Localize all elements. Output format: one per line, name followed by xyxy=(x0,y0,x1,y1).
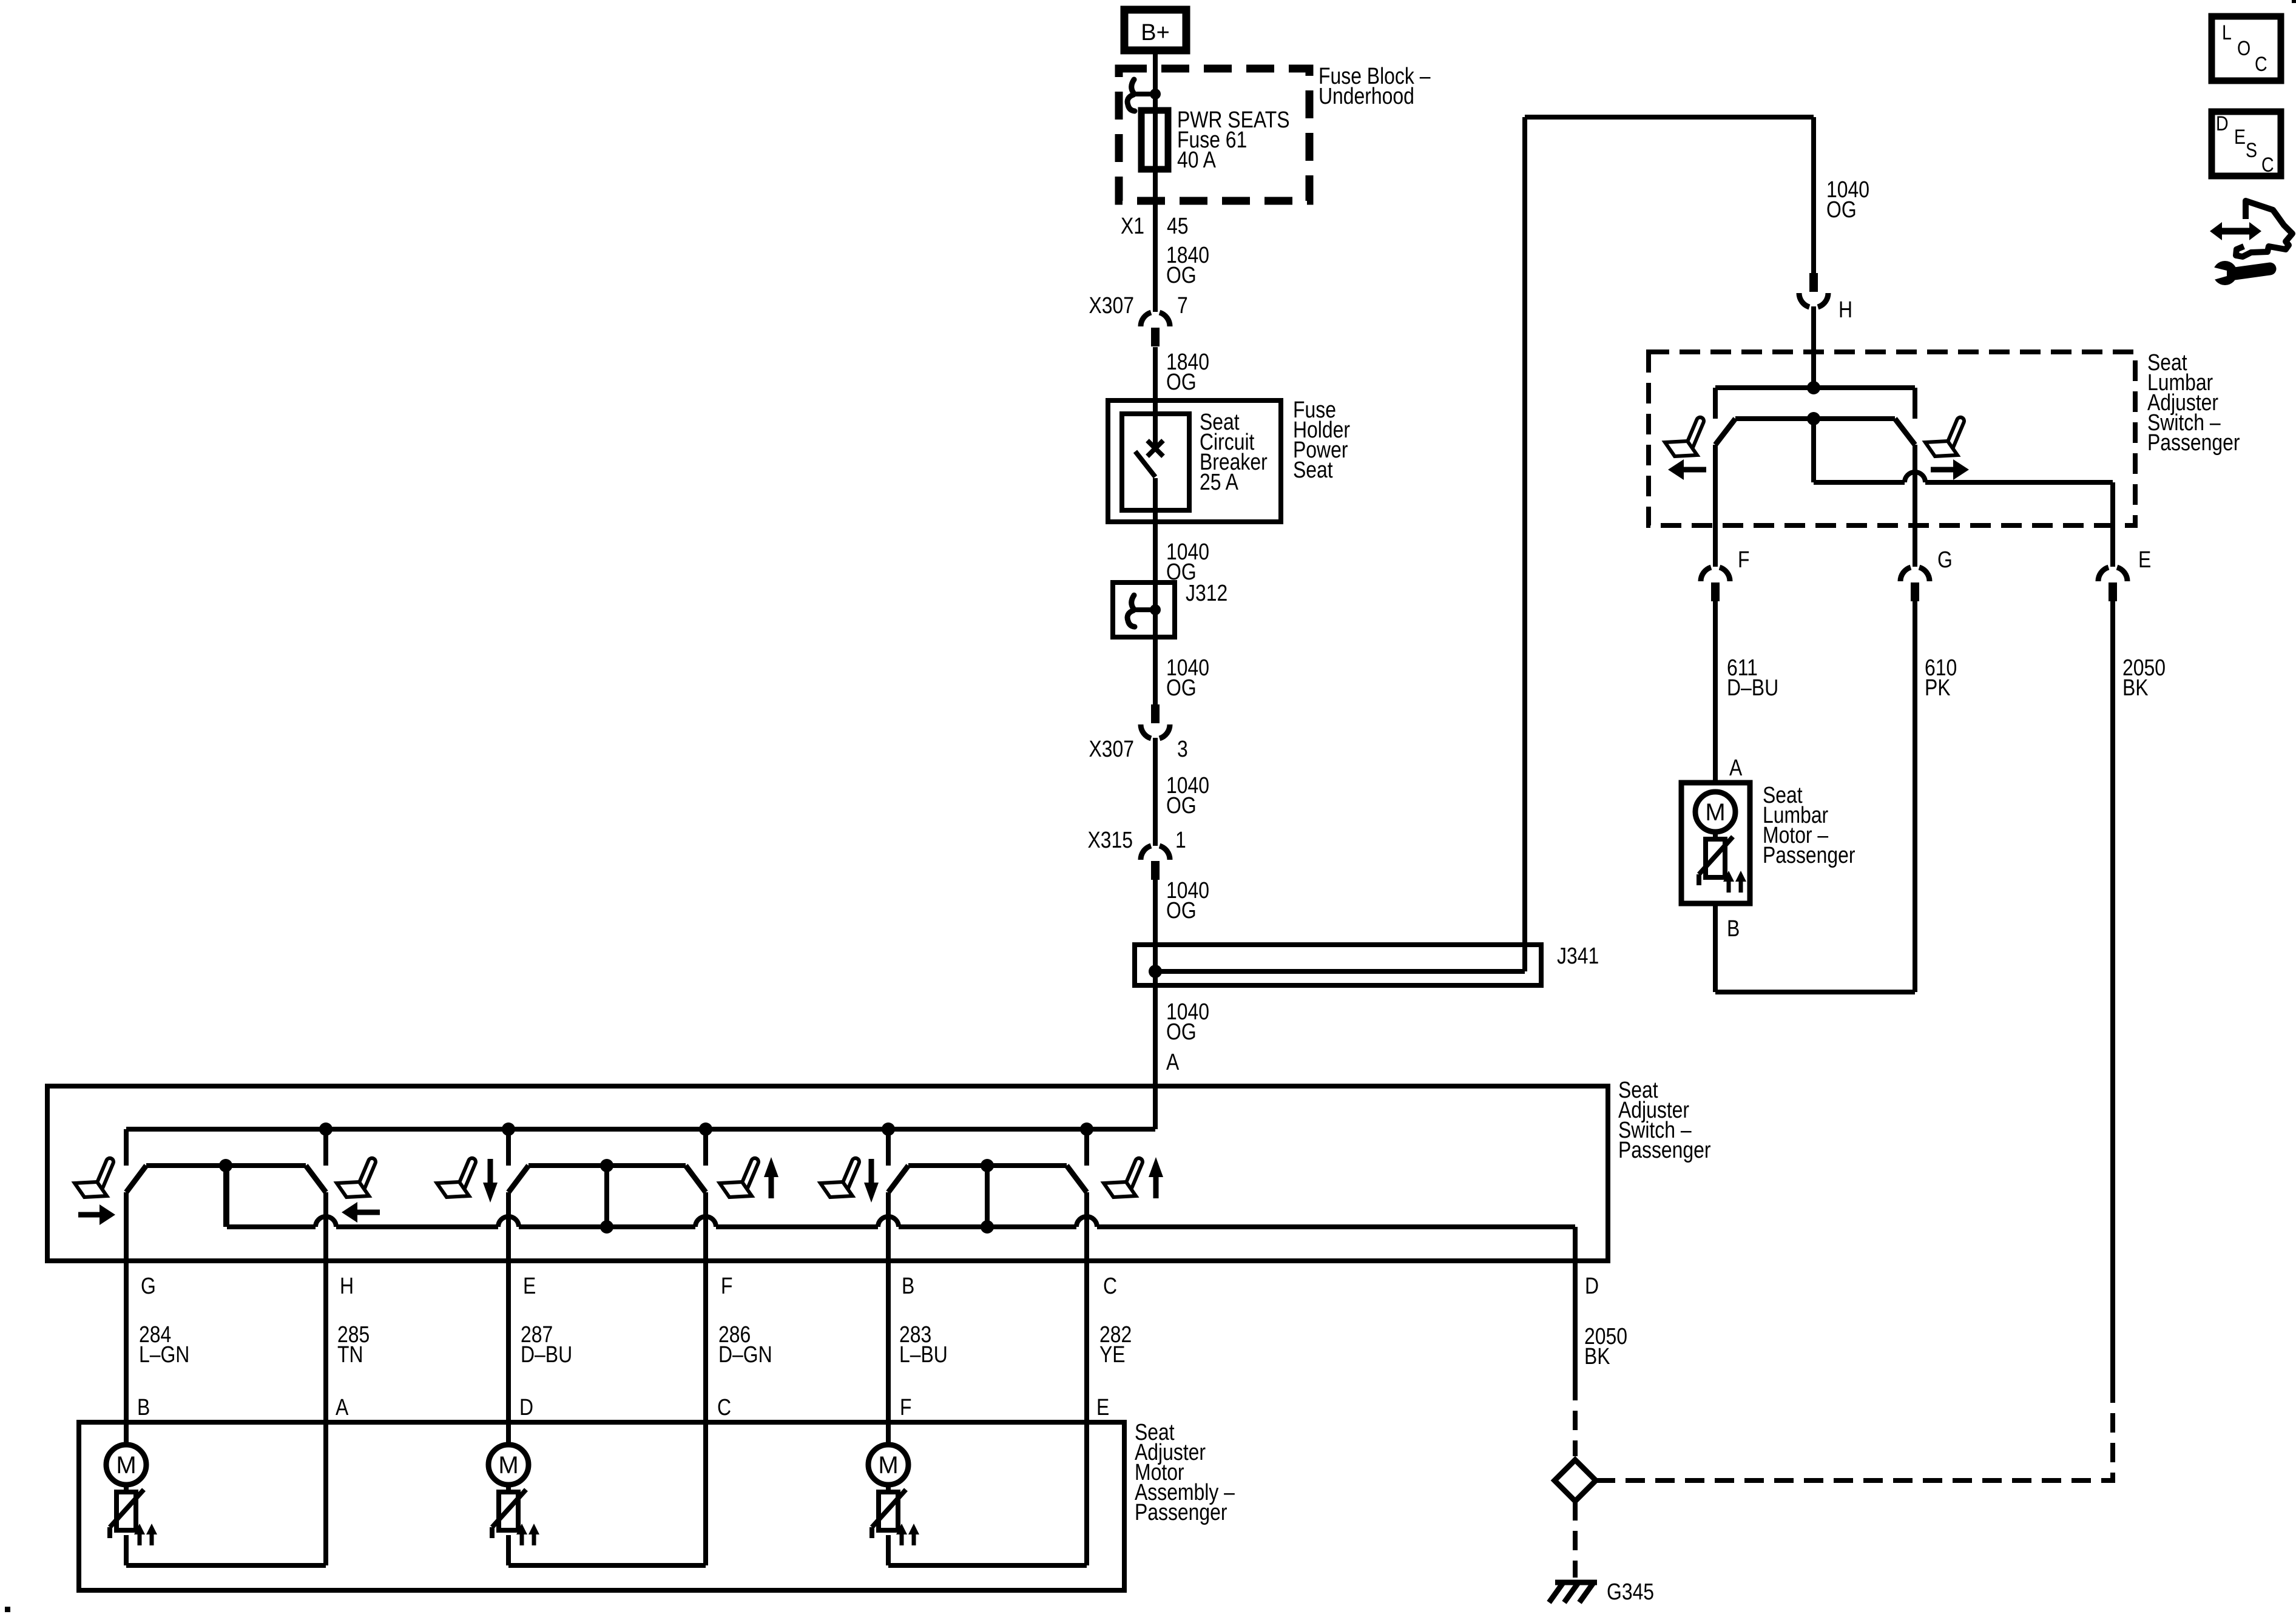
motor M2 return wire xyxy=(508,1563,706,1568)
svg-text:H: H xyxy=(340,1273,354,1298)
svg-text:1: 1 xyxy=(1175,827,1186,852)
connector E xyxy=(2098,567,2109,581)
svg-text:OG: OG xyxy=(1166,369,1197,394)
wire bus to fuse xyxy=(1153,94,1158,110)
svg-text:D–BU: D–BU xyxy=(1727,675,1778,700)
dashed wire splice to lumbar 2050 BK xyxy=(1596,1394,2113,1480)
svg-text:E: E xyxy=(2234,126,2246,149)
svg-text:Passenger: Passenger xyxy=(1618,1137,1711,1163)
wire 1040 OG xyxy=(1153,738,1158,846)
svg-text:E: E xyxy=(523,1273,536,1298)
svg-text:G: G xyxy=(1937,547,1953,572)
wire 1840 OG xyxy=(1153,347,1158,400)
lumbar motor return wire xyxy=(1713,903,1718,992)
seat icon - lumbar release xyxy=(1665,416,1705,456)
fuse holder power seat (outer box) xyxy=(1108,400,1281,522)
connector G xyxy=(1900,567,1911,581)
svg-text:OG: OG xyxy=(1166,792,1197,818)
seat icon - rear height up xyxy=(1104,1157,1144,1197)
wire fuse to X1 xyxy=(1153,169,1158,246)
svg-text:X1: X1 xyxy=(1121,213,1144,238)
fuse block bus tap xyxy=(1133,92,1155,96)
svg-text:OG: OG xyxy=(1166,897,1197,923)
svg-text:B: B xyxy=(137,1394,150,1420)
svg-text:D: D xyxy=(1585,1273,1599,1298)
svg-text:C: C xyxy=(1103,1273,1117,1298)
svg-text:A: A xyxy=(1166,1049,1180,1075)
wire 1040 OG xyxy=(1153,880,1158,945)
switch group 2 wiper tap xyxy=(604,1166,609,1227)
connector F xyxy=(1701,567,1711,581)
svg-text:O: O xyxy=(2237,37,2250,60)
svg-text:TN: TN xyxy=(337,1342,363,1367)
svg-text:J312: J312 xyxy=(1186,580,1227,606)
splice J341 xyxy=(1135,945,1541,985)
LOC reference box xyxy=(2212,16,2281,81)
svg-text:M: M xyxy=(498,1452,518,1479)
svg-text:C: C xyxy=(2261,154,2274,177)
svg-text:E: E xyxy=(2138,547,2151,572)
switch group 3 fixed contact stubs xyxy=(882,1122,895,1136)
seat icon - rear height down xyxy=(820,1157,860,1197)
switch common return wire to pin D xyxy=(225,1166,229,1227)
svg-text:Underhood: Underhood xyxy=(1319,83,1414,109)
svg-text:D: D xyxy=(519,1394,533,1420)
page corner mark xyxy=(2292,0,2296,3)
svg-text:40 A: 40 A xyxy=(1177,147,1216,172)
svg-text:B+: B+ xyxy=(1141,20,1170,46)
svg-text:A: A xyxy=(1729,755,1743,780)
splice J312 xyxy=(1113,582,1175,637)
lumbar switch wiper tap to pin E xyxy=(1811,419,1816,482)
svg-text:F: F xyxy=(721,1273,732,1298)
seat icon - seat rearward xyxy=(337,1157,377,1197)
svg-text:Seat: Seat xyxy=(1293,457,1333,482)
seat adjuster motor M1 xyxy=(124,1422,129,1445)
seat icon - seat forward xyxy=(75,1157,115,1197)
seat adjuster switch - passenger (box) xyxy=(47,1086,1608,1261)
wire 610 PK xyxy=(1913,601,1917,992)
switch group 3 wiper tap xyxy=(985,1166,990,1227)
svg-text:BK: BK xyxy=(1584,1343,1610,1369)
service icon connector outline xyxy=(2236,201,2292,257)
svg-text:PK: PK xyxy=(1925,675,1951,700)
svg-text:OG: OG xyxy=(1166,675,1197,700)
svg-text:3: 3 xyxy=(1177,736,1188,761)
svg-text:B: B xyxy=(902,1273,914,1298)
svg-text:A: A xyxy=(336,1394,349,1420)
wire 611 D-BU xyxy=(1713,601,1718,783)
lumbar switch movable contact bar xyxy=(1735,416,1895,421)
motor M1 return wire xyxy=(126,1563,326,1568)
svg-text:E: E xyxy=(1096,1394,1109,1420)
svg-text:M: M xyxy=(878,1452,898,1479)
motor M3 return wire xyxy=(888,1563,1087,1568)
svg-text:OG: OG xyxy=(1166,1019,1197,1044)
svg-text:L–GN: L–GN xyxy=(139,1342,189,1367)
switch group 2 output wires xyxy=(506,1192,511,1422)
DESC reference box xyxy=(2212,112,2281,176)
dashed wire splice to ground xyxy=(1573,1501,1578,1578)
lumbar switch output wires F G xyxy=(1713,445,1718,567)
svg-text:45: 45 xyxy=(1167,213,1189,238)
wire J341 to lumbar switch feed 1040 OG xyxy=(1522,117,1527,971)
service icon double arrow xyxy=(2220,228,2252,235)
battery positive terminal B+ xyxy=(1124,10,1186,50)
connector H - lumbar switch feed xyxy=(1809,273,1818,292)
seat icon - front height down xyxy=(437,1157,477,1197)
wire B+ to fuse block xyxy=(1153,54,1158,94)
svg-text:OG: OG xyxy=(1826,197,1857,222)
svg-text:D: D xyxy=(2216,112,2229,135)
switch group 2 fixed contact stubs xyxy=(502,1122,515,1136)
splice (diamond) xyxy=(1555,1460,1596,1501)
ground G345 xyxy=(1555,1580,1597,1585)
switch group 1 wiper tap xyxy=(223,1166,228,1227)
switch group 2 movable contact bar xyxy=(528,1163,686,1168)
seat adjuster motor assembly - passenger (box) xyxy=(79,1422,1124,1590)
svg-text:J341: J341 xyxy=(1557,943,1599,968)
svg-text:X315: X315 xyxy=(1087,827,1133,852)
svg-text:G: G xyxy=(141,1273,156,1298)
svg-text:7: 7 xyxy=(1177,292,1188,318)
svg-text:L: L xyxy=(2222,21,2232,44)
switch group 1 output wires xyxy=(124,1192,129,1422)
svg-text:YE: YE xyxy=(1099,1342,1126,1367)
seat adjuster motor M3 xyxy=(886,1422,891,1445)
seat adjuster motor M2 xyxy=(506,1422,511,1445)
seat lumbar adjuster switch - passenger (dashed box) xyxy=(1649,352,2135,525)
svg-text:B: B xyxy=(1727,916,1740,941)
svg-text:C: C xyxy=(2255,53,2267,76)
switch group 1 fixed contact stubs xyxy=(319,1122,333,1136)
svg-text:BK: BK xyxy=(2122,675,2149,700)
svg-text:M: M xyxy=(116,1452,136,1479)
svg-text:C: C xyxy=(717,1394,731,1420)
svg-text:25 A: 25 A xyxy=(1200,469,1238,495)
fuse F61 PWR SEATS 40 A xyxy=(1141,110,1168,169)
svg-text:L–BU: L–BU xyxy=(899,1342,948,1367)
circuit breaker Seat Circuit Breaker 25 A xyxy=(1122,414,1189,510)
svg-text:F: F xyxy=(1738,547,1749,572)
fuse block - underhood (dashed box) xyxy=(1119,69,1309,201)
svg-text:Passenger: Passenger xyxy=(1763,842,1855,868)
svg-text:S: S xyxy=(2246,139,2257,162)
seat icon - front height up xyxy=(720,1157,760,1197)
page footer dot xyxy=(5,1607,10,1612)
svg-text:M: M xyxy=(1705,799,1725,826)
svg-text:Passenger: Passenger xyxy=(2147,430,2240,455)
wire 2050 BK pin D to splice xyxy=(1573,1261,1578,1381)
svg-text:D–BU: D–BU xyxy=(521,1342,572,1367)
svg-text:G345: G345 xyxy=(1607,1579,1654,1604)
seat icon - lumbar inflate xyxy=(1925,416,1965,456)
switch bus wire from pin A xyxy=(126,1127,1155,1132)
switch group 3 output wires xyxy=(886,1192,891,1422)
svg-text:F: F xyxy=(900,1394,911,1420)
wire 2050 BK xyxy=(2110,601,2115,1394)
service icon wrench xyxy=(2230,269,2270,274)
switch group 1 movable contact bar xyxy=(146,1163,306,1168)
svg-text:X307: X307 xyxy=(1089,292,1134,318)
svg-text:Passenger: Passenger xyxy=(1135,1499,1227,1525)
svg-text:OG: OG xyxy=(1166,262,1197,288)
wire 1040 OG to pin A xyxy=(1153,985,1158,1129)
connector X307 pin 3 xyxy=(1151,704,1160,723)
switch group 3 movable contact bar xyxy=(908,1163,1067,1168)
lumbar switch feed bar xyxy=(1807,381,1820,394)
svg-text:X307: X307 xyxy=(1089,736,1134,761)
svg-text:D–GN: D–GN xyxy=(718,1342,772,1367)
svg-text:H: H xyxy=(1838,297,1852,322)
